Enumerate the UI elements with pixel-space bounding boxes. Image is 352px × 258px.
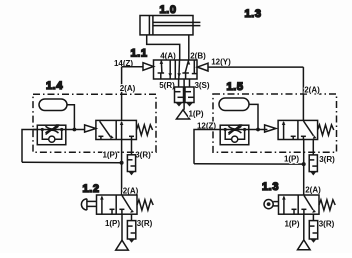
spring of valve 1.3 <box>319 200 335 210</box>
air reservoir of 1.5 <box>219 98 249 111</box>
pressure source under 1.3 <box>298 240 311 250</box>
valve 1.5 right cell arrow (2 to 3) <box>304 121 317 139</box>
wire node D loop horizontal <box>194 163 304 165</box>
wire 1.5 pilot entry from node D loop <box>194 130 220 164</box>
valve 1.4 left cell blocked T <box>98 136 103 139</box>
wire valve 1.5 port 1(P) down to node D <box>303 140 305 165</box>
wire node C loop horizontal <box>22 161 122 164</box>
svg-text:4(A): 4(A) <box>160 52 176 61</box>
svg-text:1.1: 1.1 <box>130 48 147 60</box>
valve 1.4 3/2 body <box>96 120 136 139</box>
roller actuator of 1.3 <box>264 200 279 209</box>
node junction dot 1.4 pilot <box>73 128 77 132</box>
valve 1.3 right cell arrow (2 to 3) <box>304 196 316 213</box>
valve 1.2 right cell arrow (2 to 3) <box>122 196 134 213</box>
svg-text:1(P): 1(P) <box>188 110 203 119</box>
pressure source under 1.2 <box>116 240 129 250</box>
valve 1.4 right cell pass arrow (1 to 2) <box>120 121 124 140</box>
flow control valve (throttle + check) of 1.4 <box>33 124 85 144</box>
valve 1.4 right cell blocked T <box>129 136 134 139</box>
node junction dot 1.5 pilot <box>256 128 260 132</box>
svg-text:1(P): 1(P) <box>102 150 117 159</box>
svg-text:3(R): 3(R) <box>137 219 153 228</box>
valve 1.2 left cell blocked T <box>110 209 115 214</box>
svg-text:1.5: 1.5 <box>226 81 243 93</box>
wire node B down to valve 1.5 output <box>302 67 304 120</box>
flow control valve (throttle + check) of 1.5 <box>220 124 267 144</box>
node C junction dot <box>120 161 124 165</box>
svg-text:3(R): 3(R) <box>319 220 335 229</box>
silencer on 3(R) of 1.4 <box>127 140 135 176</box>
svg-text:1.2: 1.2 <box>82 183 99 195</box>
wire 1(P) of 1.1 down to source <box>183 79 185 110</box>
valve 1.5 right cell blocked T <box>301 136 306 139</box>
wire 14(Z) pilot line to node A <box>122 66 143 68</box>
svg-text:1.4: 1.4 <box>46 80 63 92</box>
svg-text:2(A): 2(A) <box>120 84 136 93</box>
valve 1.1 blocked port T (3S) <box>192 60 197 73</box>
svg-text:12(Y): 12(Y) <box>211 58 231 67</box>
valve 1.1 left cell flow path with arrow down <box>168 60 172 79</box>
cylinder 1.0 <box>140 16 200 35</box>
wire 12(Y) pilot line to node B <box>208 66 303 68</box>
valve 1.2 right cell blocked T <box>119 209 124 214</box>
wire valve 1.4 port 1(P) down to node C <box>121 140 123 163</box>
spring of valve 1.4 <box>136 125 152 135</box>
valve 1.2 3/2 body <box>97 195 138 214</box>
node D junction dot <box>302 162 306 166</box>
silencer on 3(R) of 1.3 <box>309 214 317 243</box>
svg-text:2(A): 2(A) <box>304 86 320 95</box>
valve 1.5 left cell pass arrow <box>282 121 286 140</box>
valve 1.3 right cell blocked T <box>301 209 306 214</box>
valve 1.1 left cell flow path with arrow up <box>158 60 165 79</box>
valve U1.1 5/2 body <box>154 60 198 79</box>
pressure source under 1.1 <box>176 110 189 119</box>
valve 1.1 left pilot triangle 14(Z) <box>143 63 154 71</box>
wire valve 1.2 port 1(P) down to source <box>121 214 123 240</box>
svg-text:1.3: 1.3 <box>244 8 261 20</box>
svg-text:1.0: 1.0 <box>159 4 176 16</box>
wire cylinder right port to valve 1.1 port 2(B) <box>188 35 190 60</box>
wire node D down to valve 1.3 output <box>303 164 305 195</box>
svg-text:2(A): 2(A) <box>305 186 321 195</box>
spring of valve 1.2 <box>137 200 153 210</box>
pilot triangle of valve 1.4 <box>85 125 96 132</box>
silencer on port 3(S) of 1.1 <box>185 79 194 107</box>
valve 1.3 left cell pass arrow <box>282 196 286 215</box>
valve 1.1 right cell flow path 4-5 arrow down <box>177 60 181 79</box>
silencer on port 5(R) of 1.1 <box>175 79 184 107</box>
svg-text:3(R): 3(R) <box>135 151 151 160</box>
time-delay valve 1.5 enclosure (dash-dot box) <box>213 94 337 152</box>
svg-text:1(P): 1(P) <box>284 155 299 164</box>
svg-text:2(A): 2(A) <box>123 187 139 196</box>
wire reservoir 1.5 to pilot line junction <box>249 104 258 129</box>
wire node C down to valve 1.2 output <box>121 163 123 195</box>
svg-text:1(P): 1(P) <box>284 220 299 229</box>
svg-text:1.3: 1.3 <box>262 181 279 193</box>
valve 1.5 left cell blocked T <box>291 136 296 139</box>
wire cylinder left port to valve 1.1 port 4(A) <box>147 35 180 60</box>
svg-text:3(R): 3(R) <box>319 155 335 164</box>
air reservoir of 1.4 <box>39 99 67 111</box>
wire valve 1.3 port 1(P) down to source <box>303 214 305 240</box>
wire 1.4 pilot entry (from node C loop) <box>22 130 37 163</box>
time-delay valve 1.4 enclosure (dash-dot box) <box>33 94 156 152</box>
wire reservoir 1.4 to pilot line junction <box>67 105 74 130</box>
valve 1.1 right cell flow path 1-2 arrow up <box>182 60 190 79</box>
valve 1.4 left cell arrow (2 to 3) <box>100 121 114 139</box>
valve 1.3 left cell blocked T <box>292 209 297 214</box>
valve 1.2 left cell pass arrow <box>100 196 104 215</box>
svg-text:5(R): 5(R) <box>159 81 175 90</box>
wire node A down to valve 1.4 output <box>121 67 123 121</box>
valve 1.3 3/2 body <box>279 195 320 214</box>
push button actuator of 1.2 <box>81 199 96 210</box>
valve 1.5 3/2 body <box>278 120 318 139</box>
spring of valve 1.5 <box>318 125 334 135</box>
valve 1.1 right pilot triangle 12(Y) <box>197 63 208 71</box>
pilot triangle of valve 1.5 <box>265 125 276 132</box>
svg-text:1(P): 1(P) <box>105 219 120 228</box>
silencer on 3(R) of 1.5 <box>309 140 317 176</box>
svg-text:3(S): 3(S) <box>194 81 209 90</box>
svg-text:2(B): 2(B) <box>190 52 206 61</box>
silencer on 3(R) of 1.2 <box>127 214 135 243</box>
